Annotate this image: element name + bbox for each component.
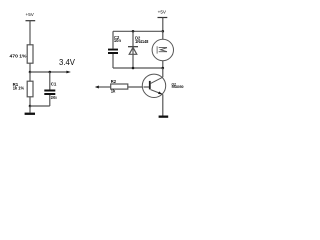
wire (bottom rail) <box>113 67 163 69</box>
junction <box>162 30 165 33</box>
capacitor C1 <box>44 72 57 106</box>
svg-text:C1: C1 <box>51 81 57 86</box>
resistor R2 <box>111 79 128 93</box>
buzzer SP1 <box>152 31 173 68</box>
svg-text:+5V: +5V <box>26 12 35 17</box>
capacitor C2 <box>108 31 121 68</box>
wire <box>29 97 31 106</box>
wire <box>30 71 67 73</box>
wire (R2 to base) <box>99 86 111 88</box>
label 3.4V <box>59 57 75 74</box>
node junction <box>29 71 32 74</box>
input arrow <box>95 86 99 89</box>
junction <box>132 30 135 33</box>
ground (left) <box>25 106 35 115</box>
svg-text:1N4148: 1N4148 <box>135 39 149 44</box>
power +5V (left) <box>26 12 36 21</box>
wire <box>29 21 31 45</box>
svg-text:10n: 10n <box>114 38 122 43</box>
wire <box>162 18 164 32</box>
svg-text:1k: 1k <box>111 88 116 93</box>
svg-text:+5V: +5V <box>158 9 167 14</box>
svg-text:470 1%: 470 1% <box>10 54 27 59</box>
resistor 470 <box>10 45 34 63</box>
svg-text:1k 1%: 1k 1% <box>13 86 24 91</box>
wire (top rail) <box>113 30 163 32</box>
power +5V (right) <box>158 9 168 17</box>
resistor R1 <box>13 72 33 97</box>
junction <box>162 67 165 70</box>
wire <box>29 63 31 72</box>
svg-text:100n: 100n <box>51 95 57 100</box>
svg-text:R2: R2 <box>111 79 117 84</box>
wire <box>128 86 145 88</box>
wire <box>30 105 50 107</box>
svg-text:3.4V: 3.4V <box>59 57 75 67</box>
junction <box>49 71 52 74</box>
svg-text:SS8050: SS8050 <box>172 85 184 89</box>
junction <box>132 67 135 70</box>
transistor Q2 SS8050 <box>142 68 183 116</box>
junction <box>29 105 32 108</box>
ground (right) <box>159 116 169 118</box>
diode D2 1N4148 <box>128 31 149 68</box>
